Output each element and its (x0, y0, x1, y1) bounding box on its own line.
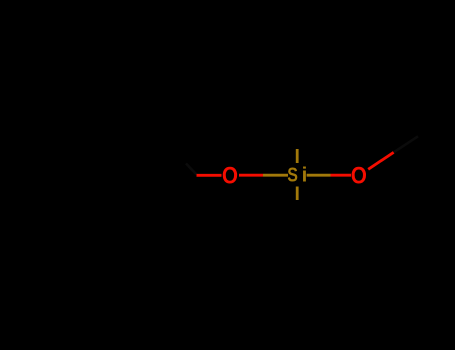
wire: bond O1-Si red half (239, 174, 263, 177)
wire: bond O2-C carbon half (near-invisible) (394, 136, 418, 152)
wire: bond C1-O1 left red half (197, 174, 222, 177)
atom Si (silicon) (287, 163, 307, 187)
wire: bond Si-O2 red half (331, 174, 352, 177)
svg-text:i: i (302, 164, 308, 187)
wire: methyl bond below Si (olive half) (296, 187, 299, 201)
wire: methyl bond above Si (olive half) (296, 149, 299, 163)
svg-text:O: O (222, 162, 238, 189)
wire: bond O1-Si olive half (263, 174, 288, 177)
svg-text:O: O (351, 162, 367, 189)
svg-text:S: S (287, 163, 298, 186)
wire: bond Si-O2 olive half (307, 174, 331, 177)
wire: bond O2-C red half (diagonal) (368, 152, 394, 169)
wire: bond C4-C3 of butenyl chain (carbon half, near-invisible) (186, 164, 197, 175)
